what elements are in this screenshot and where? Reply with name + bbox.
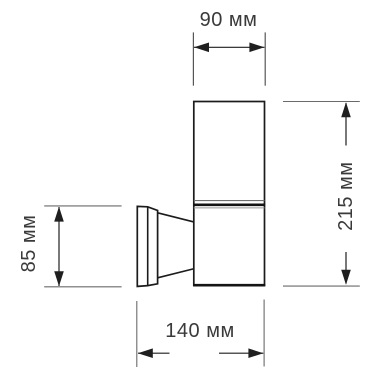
cylinder thick bottom edge <box>193 284 265 287</box>
top dimension right extension line <box>264 32 266 85</box>
svg-text:90 мм: 90 мм <box>200 9 258 31</box>
left dimension line <box>58 207 60 286</box>
left dimension top extension line <box>44 205 121 207</box>
right dimension top extension line <box>283 101 360 103</box>
wall plate <box>137 206 157 286</box>
top dimension left extension line <box>192 32 194 85</box>
mounting arm bottom edge <box>158 269 194 278</box>
cylinder lower faint seam line <box>194 207 265 209</box>
top dimension left arrowhead <box>194 43 209 53</box>
right dimension up arrowhead <box>341 102 351 117</box>
bottom dimension line right segment <box>219 352 263 354</box>
right dimension line lower segment <box>345 252 347 284</box>
svg-text:215 мм: 215 мм <box>335 161 357 230</box>
svg-text:140 мм: 140 мм <box>165 320 234 342</box>
wall plate inner divider line <box>147 207 149 286</box>
bottom dimension left extension line <box>136 301 138 367</box>
right dimension down arrowhead <box>341 270 351 285</box>
bottom dimension right arrowhead <box>248 348 263 358</box>
mounting arm top edge <box>158 213 194 222</box>
left dimension bottom extension line <box>44 286 121 288</box>
bottom dimension right extension line <box>263 300 265 367</box>
bottom dimension line left segment <box>138 352 170 354</box>
left dimension up arrowhead <box>54 207 64 222</box>
left dimension down arrowhead <box>54 271 64 286</box>
top dimension line <box>194 46 264 48</box>
lamp body cylinder outline <box>194 102 265 286</box>
top dimension right arrowhead <box>249 43 264 53</box>
bottom dimension left arrowhead <box>138 348 153 358</box>
svg-text:85 мм: 85 мм <box>18 215 40 273</box>
right dimension line upper segment <box>345 103 347 146</box>
cylinder thick seam band <box>193 203 265 206</box>
right dimension bottom extension line <box>283 285 360 287</box>
cylinder thin seam line <box>194 200 265 202</box>
